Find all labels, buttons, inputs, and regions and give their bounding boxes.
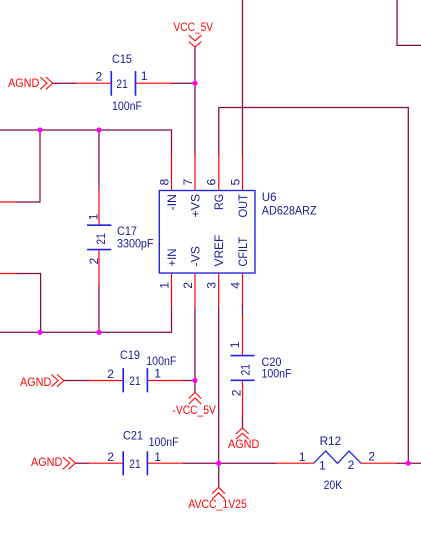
svg-text:VREF: VREF [212,235,226,267]
svg-text:+VS: +VS [188,194,202,218]
svg-text:2: 2 [368,450,375,464]
svg-text:3300pF: 3300pF [117,237,154,251]
svg-text:21: 21 [238,364,252,376]
svg-text:3: 3 [205,282,219,289]
svg-text:1: 1 [299,450,306,464]
svg-text:20K: 20K [324,478,343,492]
svg-text:21: 21 [116,77,128,91]
svg-text:1: 1 [86,213,100,220]
svg-text:AGND: AGND [8,76,39,90]
svg-text:AGND: AGND [228,437,259,451]
svg-text:U6: U6 [262,190,277,204]
svg-text:1: 1 [157,282,171,289]
svg-text:AVCC_1V25: AVCC_1V25 [188,497,247,511]
svg-text:2: 2 [107,450,114,464]
svg-text:C15: C15 [112,52,132,66]
svg-text:2: 2 [348,458,355,472]
svg-text:21: 21 [129,374,141,388]
svg-text:1: 1 [228,341,242,348]
svg-text:C19: C19 [120,348,140,362]
svg-text:2: 2 [96,69,103,83]
svg-text:VCC_5V: VCC_5V [174,20,214,34]
svg-text:2: 2 [229,389,243,396]
svg-text:R12: R12 [320,434,342,448]
svg-text:-IN: -IN [165,194,179,211]
svg-text:CFILT: CFILT [236,237,250,267]
svg-text:AGND: AGND [31,455,62,469]
svg-text:RG: RG [212,194,226,210]
svg-text:5: 5 [228,179,242,186]
svg-text:2: 2 [107,367,114,381]
svg-text:4: 4 [228,282,242,289]
svg-text:1: 1 [319,459,326,473]
svg-text:1: 1 [154,450,161,464]
svg-text:100nF: 100nF [262,367,292,381]
svg-text:AGND: AGND [20,375,51,389]
svg-text:1: 1 [154,367,161,381]
svg-text:7: 7 [181,179,195,186]
svg-text:OUT: OUT [236,194,250,218]
svg-text:100nF: 100nF [146,354,176,368]
svg-text:8: 8 [157,179,171,186]
svg-text:21: 21 [129,457,141,471]
svg-text:+IN: +IN [165,249,179,267]
svg-text:AD628ARZ: AD628ARZ [262,203,317,217]
svg-text:-VS: -VS [188,246,202,267]
svg-text:100nF: 100nF [112,99,142,113]
svg-text:6: 6 [205,179,219,186]
svg-text:1: 1 [141,69,148,83]
svg-text:2: 2 [87,258,101,265]
svg-text:21: 21 [94,233,108,245]
svg-text:100nF: 100nF [149,435,179,449]
svg-text:2: 2 [181,282,195,289]
svg-text:C21: C21 [123,428,143,442]
svg-text:-VCC_5V: -VCC_5V [172,403,216,417]
